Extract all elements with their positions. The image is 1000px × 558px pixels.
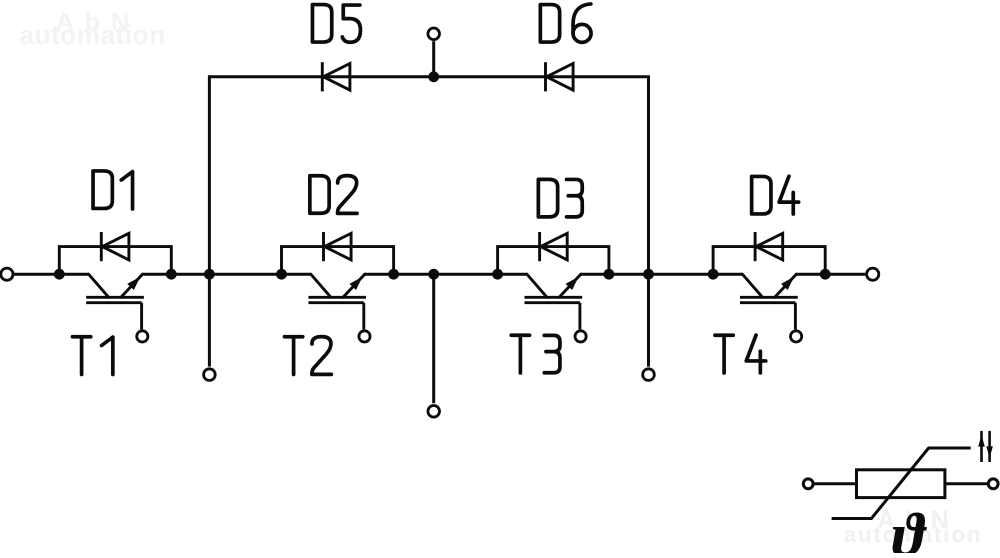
label D4 bbox=[752, 176, 799, 214]
wire: diode loop T1/D1 bbox=[59, 247, 171, 275]
junction rail/left drop bbox=[204, 269, 215, 280]
wire: gate lead T3 bbox=[578, 303, 581, 330]
wire: thermistor left lead bbox=[814, 482, 856, 485]
transistor T1 (IGBT) bbox=[86, 274, 144, 303]
label T3 bbox=[511, 335, 560, 373]
wire: centre bottom drop bbox=[432, 274, 435, 403]
svg-text:automation: automation bbox=[19, 20, 165, 50]
junction rail/centre drop bbox=[428, 269, 439, 280]
svg-text:ϑ: ϑ bbox=[892, 502, 927, 553]
terminal 1 (rail left) bbox=[1, 268, 13, 280]
terminal 5 (thermistor left) bbox=[803, 479, 813, 489]
junction rail/right drop bbox=[643, 269, 654, 280]
node: collector T3 bbox=[492, 269, 503, 280]
node: emitter T4 bbox=[820, 269, 831, 280]
label T1 bbox=[72, 337, 112, 375]
diode D6 bbox=[546, 62, 574, 91]
wire: diode loop T2/D2 bbox=[282, 247, 394, 275]
wire: top bus and side drops bbox=[209, 77, 648, 367]
label D5 bbox=[312, 5, 360, 43]
terminal 4 (bottom centre) bbox=[428, 406, 440, 418]
label D2 bbox=[310, 176, 357, 214]
junction on top bus bbox=[428, 71, 439, 82]
transistor T4 (IGBT) bbox=[740, 274, 798, 303]
label D1 bbox=[93, 171, 133, 209]
terminal 8 (right drop) bbox=[643, 369, 655, 381]
diode D3 bbox=[540, 232, 568, 261]
transistor T3 (IGBT) bbox=[525, 274, 583, 303]
node: collector T1 bbox=[54, 269, 65, 280]
diode D5 bbox=[322, 62, 350, 91]
wire: gate lead T2 bbox=[362, 303, 365, 330]
diode D1 bbox=[101, 232, 129, 261]
terminal 6 (thermistor right) bbox=[988, 479, 998, 489]
gate terminal T2 bbox=[359, 331, 370, 342]
diode D2 bbox=[324, 232, 352, 261]
terminal 2 (rail right) bbox=[867, 268, 879, 280]
wire: gate lead T1 bbox=[140, 303, 143, 330]
node: emitter T2 bbox=[388, 269, 399, 280]
transistor T2 (IGBT) bbox=[308, 274, 366, 303]
wire: diode loop T4/D4 bbox=[713, 247, 825, 275]
wire: main rail bbox=[14, 273, 865, 276]
temperature arrows bbox=[978, 431, 993, 462]
label T4 bbox=[715, 335, 766, 373]
diode D4 bbox=[755, 232, 783, 261]
label D3 bbox=[538, 179, 582, 217]
gate terminal T4 bbox=[791, 331, 802, 342]
node: emitter T3 bbox=[604, 269, 615, 280]
thermistor body (NTC) bbox=[857, 470, 945, 498]
node: collector T2 bbox=[276, 269, 287, 280]
gate terminal T1 bbox=[137, 331, 148, 342]
wire: thermistor right lead bbox=[945, 482, 987, 485]
terminal 3 (top centre) bbox=[428, 28, 440, 40]
label T2 bbox=[284, 337, 331, 375]
node: collector T4 bbox=[708, 269, 719, 280]
wire: diode loop T3/D3 bbox=[498, 247, 609, 275]
wire: gate lead T4 bbox=[794, 303, 797, 330]
node: emitter T1 bbox=[166, 269, 177, 280]
thermistor characteristic stroke bbox=[832, 448, 971, 519]
terminal 7 (left drop) bbox=[204, 369, 216, 381]
wire: top centre stub bbox=[432, 41, 435, 77]
label D6 bbox=[540, 4, 591, 42]
gate terminal T3 bbox=[575, 331, 586, 342]
